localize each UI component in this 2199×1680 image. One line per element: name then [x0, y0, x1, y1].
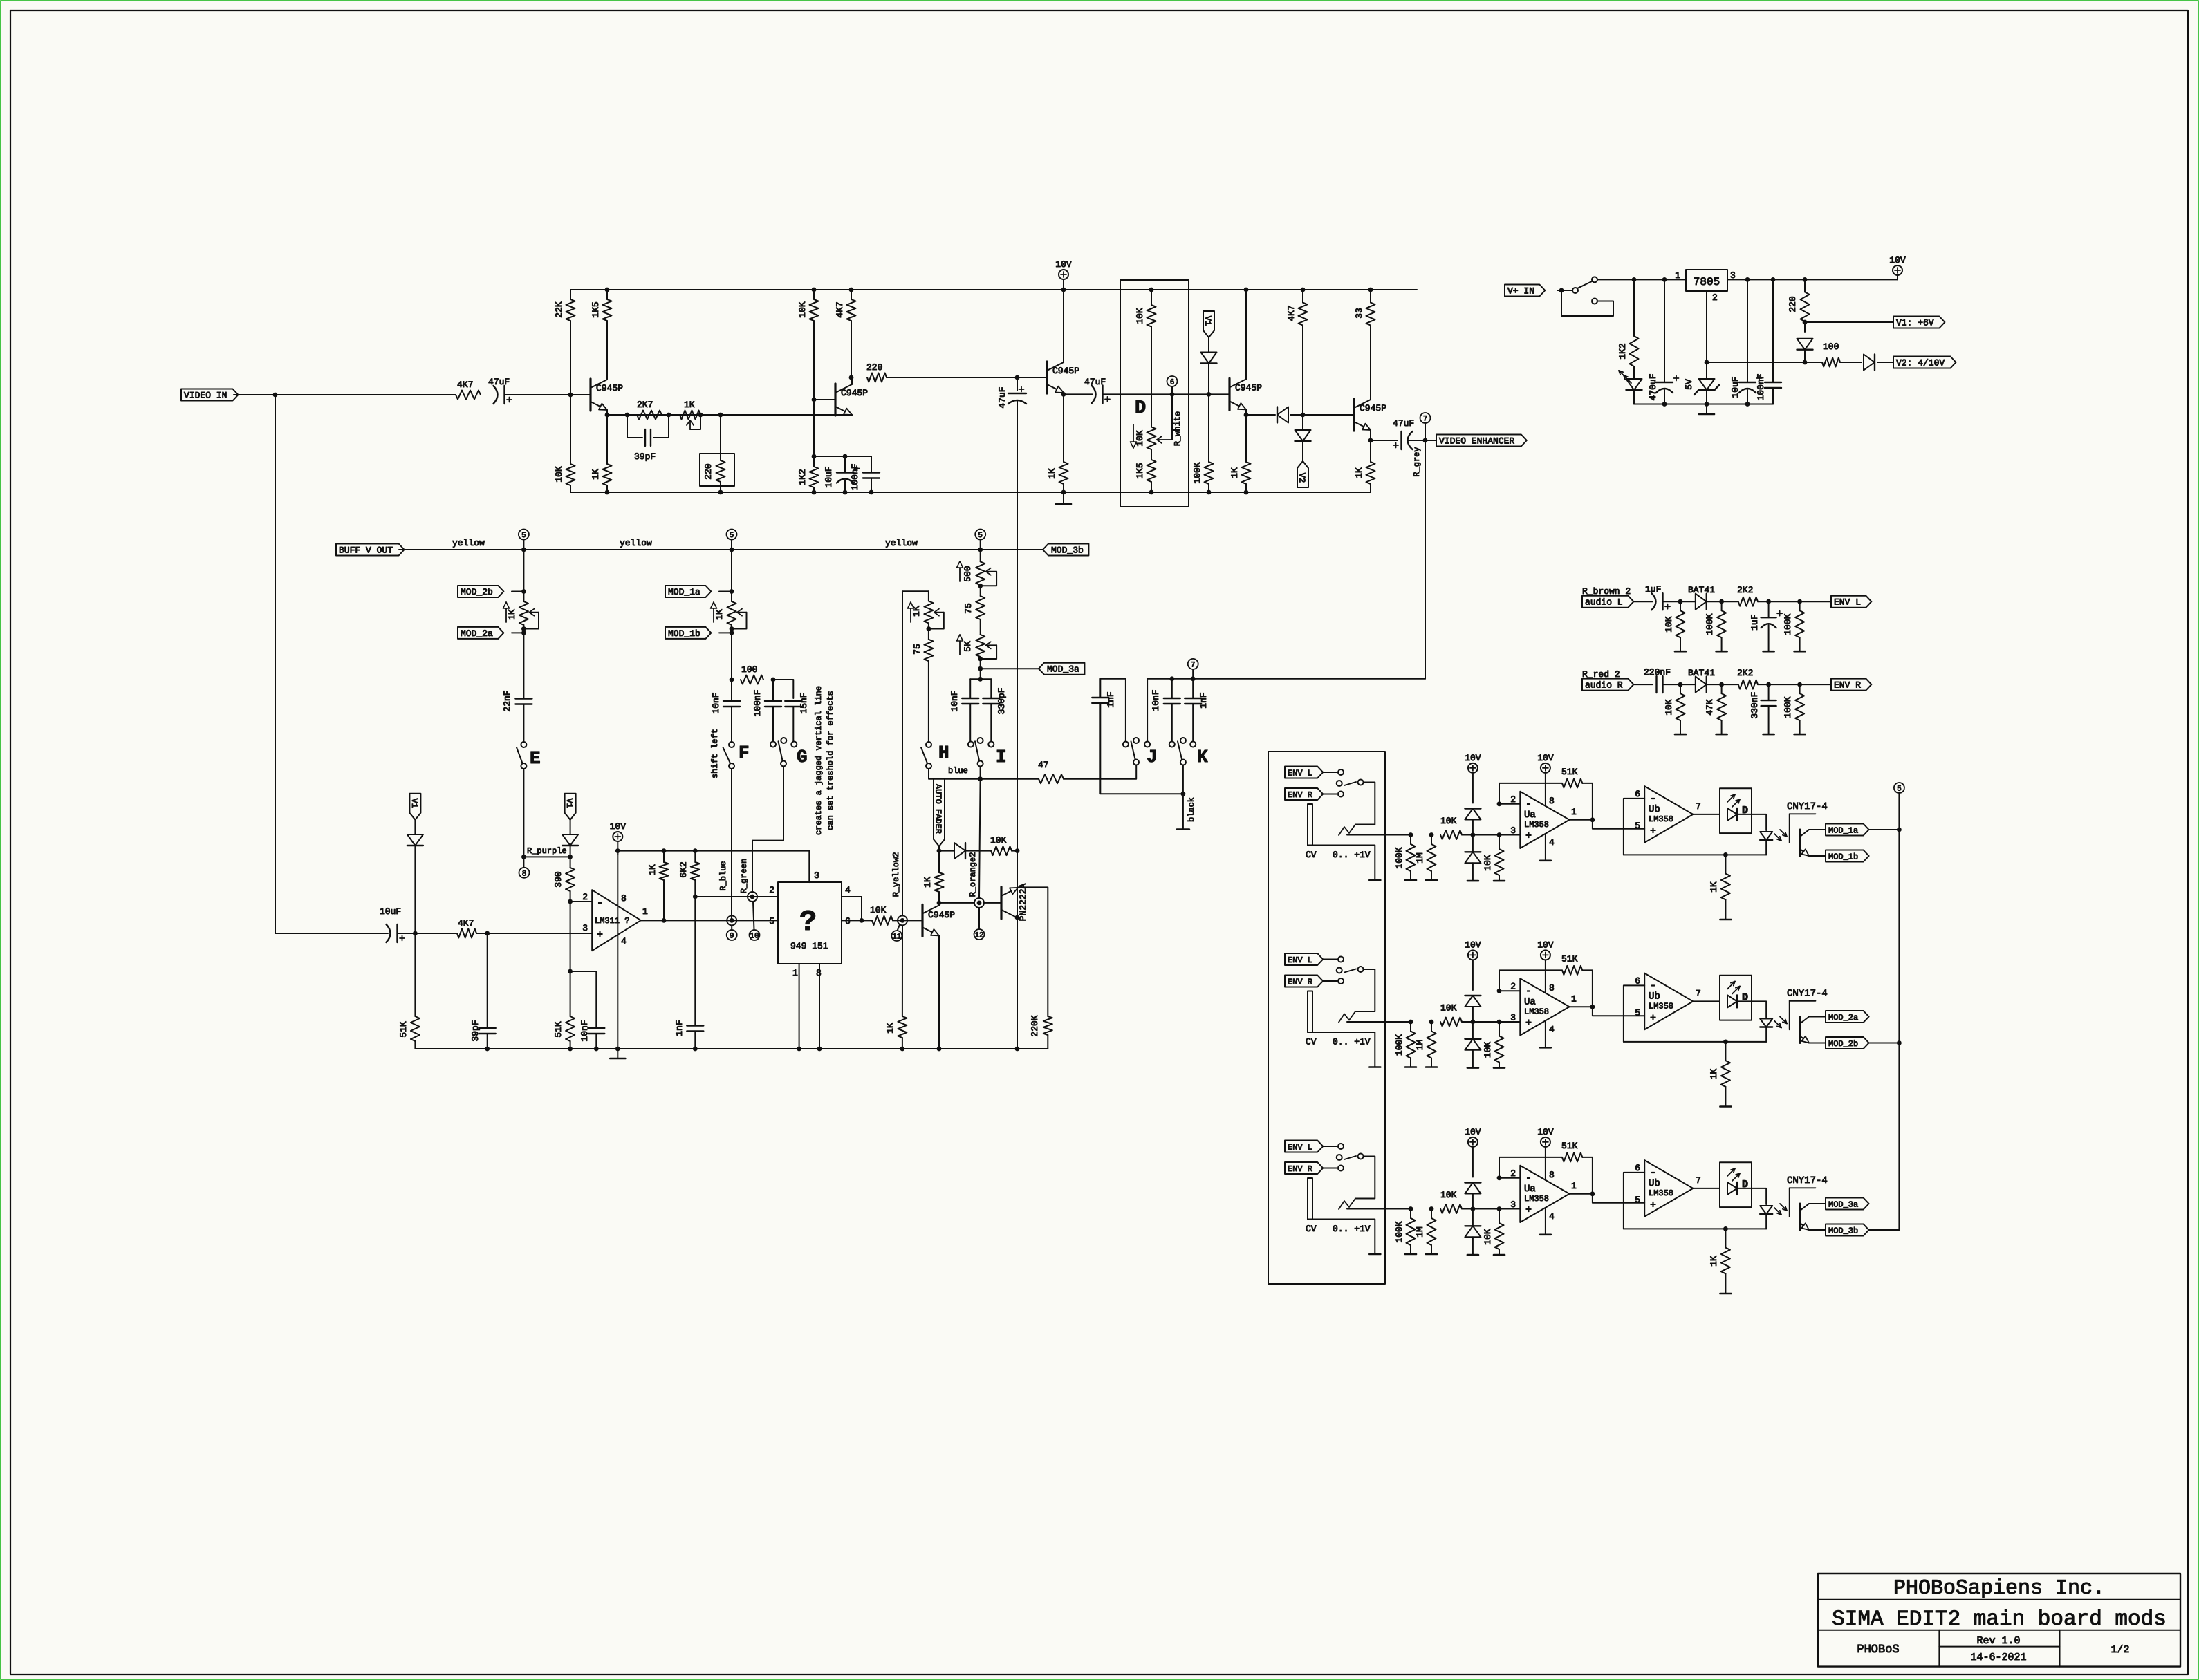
svg-text:0.. +1V: 0.. +1V	[1333, 1224, 1371, 1234]
wire feedback up and over	[1499, 970, 1562, 991]
wire Ub output to D box	[1693, 1188, 1720, 1189]
resistor 100K (env load)	[1795, 610, 1804, 637]
switch K right contact	[1190, 742, 1196, 747]
svg-text:+: +	[1650, 825, 1656, 837]
resistor 390	[566, 868, 575, 891]
switch H blade	[921, 747, 927, 763]
node 500 pot chain tap	[978, 548, 983, 552]
svg-text:10V: 10V	[1465, 940, 1481, 950]
capacitor 39pF (comparator)	[479, 1027, 496, 1029]
wire R_purple to 390	[523, 856, 570, 857]
svg-text:10V: 10V	[1537, 753, 1554, 763]
wire 47 to switch J	[1064, 765, 1136, 779]
wire MOD_3b to bus	[1869, 1229, 1900, 1231]
capacitor 100nF (supply)	[1765, 382, 1781, 383]
node MOD_1 pot bottom	[730, 626, 734, 631]
svg-text:MOD_2a: MOD_2a	[1828, 1013, 1858, 1023]
svg-text:5: 5	[1635, 1195, 1640, 1205]
wire switch E to R_purple	[523, 769, 524, 857]
svg-text:5: 5	[521, 532, 526, 540]
svg-text:1: 1	[1571, 1181, 1577, 1191]
node 1K pullup top	[662, 848, 667, 853]
wire BAT41 out	[1707, 601, 1738, 602]
terminal R_blue (circle)	[727, 915, 736, 925]
ground (10K pulldown)	[1494, 1254, 1505, 1256]
ground (video bottom bus)	[1063, 492, 1064, 504]
svg-text:MOD_2b: MOD_2b	[1828, 1039, 1858, 1049]
circled 5 (MOD_1 tap)	[731, 540, 732, 550]
wire Ub pin6 bracket	[1624, 985, 1644, 1042]
net flag audio R	[1582, 679, 1633, 691]
node MOD_2b junction	[521, 589, 526, 594]
svg-text:AUTO FADER: AUTO FADER	[934, 784, 943, 834]
node 10V bus	[1061, 288, 1066, 292]
switch F lower contact	[729, 763, 734, 769]
ground (env 100K)	[1794, 651, 1806, 653]
circled 5 (MOD bus)	[1894, 783, 1904, 793]
resistor 1K2	[810, 467, 819, 487]
node 1nF bottom rail	[693, 1047, 698, 1052]
svg-text:10K: 10K	[870, 905, 887, 915]
node R_purple	[521, 855, 526, 859]
trimpot 1K (MOD_2)	[519, 601, 528, 625]
resistor 100 (V2)	[1822, 358, 1840, 367]
svg-text:1nF: 1nF	[674, 1020, 685, 1036]
node 1K bottom bus	[1244, 490, 1249, 495]
node 100nF bottom bus	[869, 490, 874, 495]
svg-text:47uF: 47uF	[997, 386, 1008, 408]
resistor 4K7 (comparator input)	[457, 929, 476, 938]
resistor 1K (Q1 emitter)	[603, 464, 612, 485]
svg-text:-: -	[1525, 986, 1532, 998]
svg-text:1K: 1K	[922, 877, 933, 888]
capacitor 47uF (video in coupling)	[494, 386, 498, 404]
opamp Ub LM358	[1644, 1160, 1693, 1217]
resistor 10K (chip output)	[872, 916, 893, 925]
contact circle ENV L	[1338, 957, 1344, 962]
box D (opto LED)	[1720, 788, 1752, 833]
svg-text:2K2: 2K2	[1737, 585, 1753, 595]
node 47uF vertical tap	[1015, 375, 1020, 380]
node 10V rail (LM311)	[615, 848, 620, 853]
resistor 1K (Q4 emitter)	[1242, 462, 1251, 484]
svg-text:6: 6	[845, 916, 851, 926]
node 10K tap	[1678, 682, 1683, 687]
node 4K7 top bus	[1301, 288, 1306, 292]
diode V2 out	[1864, 355, 1875, 371]
svg-text:6: 6	[1170, 379, 1175, 387]
svg-text:2: 2	[582, 892, 588, 902]
ground (cv 1M)	[1426, 1066, 1437, 1068]
resistor 100K (V1 bias)	[1205, 462, 1214, 484]
wire 47uF to Q1 base	[505, 394, 591, 395]
svg-text:39pF: 39pF	[470, 1020, 481, 1041]
node 47K tap	[1719, 682, 1724, 687]
box envelope input section	[1268, 752, 1385, 1284]
node Ua output	[1590, 817, 1595, 822]
node 470uF top	[1662, 277, 1667, 282]
wire V+ IN	[1557, 290, 1572, 291]
svg-text:220K: 220K	[1030, 1015, 1040, 1036]
svg-text:1uF: 1uF	[1645, 584, 1661, 595]
svg-text:330pF: 330pF	[996, 687, 1007, 714]
svg-text:ENV R: ENV R	[1834, 680, 1861, 691]
resistor 100 (shift filter)	[741, 675, 763, 684]
svg-text:7: 7	[1191, 661, 1196, 669]
node 1K2 bottom bus	[812, 490, 817, 495]
svg-text:1K: 1K	[647, 864, 658, 875]
svg-text:E: E	[530, 748, 541, 769]
diode clamp upper	[1465, 996, 1481, 1007]
resistor 10K (+in pulldown)	[1495, 1223, 1504, 1249]
svg-text:1K: 1K	[684, 400, 695, 410]
node pin2 feedback	[1497, 989, 1502, 993]
node 10nF tap (R_grey line)	[1169, 676, 1174, 681]
svg-text:75: 75	[912, 644, 922, 655]
node R_white wiper on signal	[1170, 392, 1175, 397]
svg-text:R_green: R_green	[739, 859, 749, 893]
resistor 1M (cv in)	[1427, 1218, 1436, 1245]
net flag MOD_2a	[1826, 1011, 1869, 1023]
node 10uF bottom	[1745, 402, 1750, 407]
switch I right contact	[988, 742, 994, 747]
svg-text:3: 3	[814, 870, 819, 881]
node 10K tap	[1678, 599, 1683, 604]
svg-text:10V: 10V	[610, 821, 627, 832]
wire env select output	[1355, 969, 1375, 1011]
box D (opto LED)	[1720, 976, 1752, 1020]
svg-text:C945P: C945P	[1360, 403, 1386, 413]
svg-text:500: 500	[963, 566, 973, 581]
wire R_orange2 to PN2222A base	[984, 902, 1001, 904]
svg-text:C945P: C945P	[928, 910, 955, 920]
wire LM311 output to chip pin5	[641, 920, 778, 921]
node 2K7 left	[625, 413, 630, 418]
switch H lower contact	[926, 763, 931, 769]
svg-text:7: 7	[1696, 801, 1701, 812]
node 10nF branch	[568, 969, 573, 974]
svg-text:100K: 100K	[1394, 1034, 1404, 1056]
wire Q2 emitter to stage1 output	[851, 414, 853, 416]
capacitor 1uF (env hold)	[1761, 617, 1776, 618]
capacitor 220nF (env in)	[1655, 676, 1657, 693]
svg-text:4K7: 4K7	[1286, 305, 1297, 321]
regulator 7805	[1686, 270, 1727, 291]
svg-text:MOD_3a: MOD_3a	[1828, 1200, 1858, 1210]
ground (cv 1M)	[1426, 1253, 1437, 1256]
switch power blade	[1577, 281, 1592, 288]
wire D box out	[1737, 1188, 1766, 1204]
svg-text:BAT41: BAT41	[1688, 585, 1715, 595]
wire Ua pin2	[1499, 1177, 1520, 1179]
svg-text:1: 1	[792, 968, 798, 978]
svg-text:2: 2	[1510, 1168, 1516, 1179]
svg-text:Ub: Ub	[1649, 804, 1660, 815]
svg-text:10K: 10K	[1483, 855, 1493, 871]
resistor 10K (cv series)	[1440, 1018, 1462, 1027]
svg-text:10V: 10V	[1889, 255, 1906, 265]
svg-text:220nF: 220nF	[1644, 667, 1671, 678]
svg-text:47: 47	[1038, 760, 1049, 770]
switch I blade	[975, 741, 979, 760]
switch power top contact	[1592, 277, 1597, 282]
svg-text:10K: 10K	[1440, 1190, 1457, 1200]
svg-text:10V: 10V	[1055, 259, 1072, 270]
svg-text:10K: 10K	[797, 301, 808, 318]
resistor 100K (env)	[1717, 610, 1726, 637]
net flag ENV L (group)	[1285, 767, 1323, 778]
wire Q6 collector to R_orange2	[939, 902, 974, 904]
node junction video input	[273, 393, 278, 398]
wire ENV L to contact	[1323, 1146, 1337, 1147]
switch J middle contact	[1133, 738, 1139, 743]
wire Ua pin2	[1499, 990, 1520, 991]
node black junction	[1181, 792, 1186, 796]
jack CV body	[1308, 1178, 1312, 1220]
svg-text:8: 8	[1549, 1170, 1555, 1180]
svg-text:ENV L: ENV L	[1288, 955, 1312, 965]
wire MOD_1 chain down	[731, 633, 732, 680]
wire switch I pivot to blue	[980, 767, 981, 779]
resistor 100K (env load)	[1795, 693, 1804, 720]
resistor 10K (env)	[1676, 693, 1685, 720]
svg-text:100: 100	[741, 664, 757, 675]
wire VIDEO IN to 4K7	[234, 394, 456, 395]
svg-text:2: 2	[1510, 982, 1516, 992]
trimpot 1K MOD_2 wiper loop	[529, 612, 539, 613]
resistor 220K	[1043, 1016, 1052, 1035]
wire jack tip output	[1347, 1208, 1411, 1210]
node 47uF line at PN2222A collector	[1015, 915, 1020, 920]
svg-text:10V: 10V	[1465, 753, 1481, 763]
power symbol 10V (video driver)	[1059, 270, 1068, 279]
wire comparator bottom rail	[415, 1048, 1017, 1049]
optocoupler CNY17-4 outline	[1790, 1000, 1816, 1002]
resistor 33	[1366, 303, 1375, 326]
svg-text:F: F	[739, 743, 750, 763]
svg-text:CNY17-4: CNY17-4	[1787, 989, 1828, 1000]
wire V1 to diode	[1208, 337, 1209, 352]
svg-text:2K2: 2K2	[1737, 668, 1753, 678]
svg-text:14-6-2021: 14-6-2021	[1970, 1652, 2026, 1663]
svg-text:7805: 7805	[1694, 276, 1720, 288]
node env 100K tap	[1797, 599, 1802, 604]
svg-text:1K: 1K	[591, 469, 601, 480]
node Q6 collector	[937, 901, 942, 906]
svg-text:-: -	[1650, 793, 1656, 805]
switch power lower contact	[1592, 299, 1597, 304]
svg-text:creates a jagged vertical line: creates a jagged vertical line	[814, 686, 824, 835]
svg-text:10K: 10K	[1440, 816, 1457, 826]
resistor 51K (input bias)	[411, 1016, 420, 1041]
ground (comparator rail)	[617, 1049, 618, 1058]
svg-text:47uF: 47uF	[1084, 377, 1106, 387]
wire chip pin4 loop	[842, 897, 862, 920]
svg-text:10uF: 10uF	[824, 466, 834, 487]
svg-text:yellow: yellow	[452, 538, 485, 548]
resistor 75 (H chain)	[924, 640, 933, 661]
node 10K pulldown tap	[1497, 832, 1502, 837]
circled 7 marker	[1425, 423, 1426, 440]
diode clamp lower	[1472, 835, 1474, 852]
diode clamp lower	[1472, 1022, 1474, 1039]
jack CV body	[1308, 804, 1312, 846]
wire CNY LED to feedback rail	[1765, 1214, 1767, 1229]
wire opto collector to MOD_1a	[1809, 829, 1826, 830]
wire supply bottom rail	[1634, 404, 1773, 405]
node Q4 collector bus	[1244, 288, 1249, 292]
circled 11	[898, 925, 900, 931]
capacitor 10nF (H/I)	[962, 698, 978, 699]
resistor 10K (cv series)	[1440, 1204, 1462, 1213]
terminal R_green (circle)	[748, 892, 757, 902]
node 220 bottom bus	[718, 490, 723, 495]
node 10uF bottom bus	[843, 490, 848, 495]
svg-text:4: 4	[1549, 1211, 1555, 1222]
resistor 2K2 (env)	[1738, 680, 1758, 689]
svg-text:10K: 10K	[1483, 1042, 1493, 1058]
svg-text:390: 390	[553, 871, 564, 887]
wire lower contact loop	[1561, 290, 1613, 316]
svg-text:4: 4	[1549, 837, 1555, 848]
net flag MOD_1b	[1826, 850, 1869, 862]
svg-text:330nF: 330nF	[1750, 692, 1760, 719]
svg-text:100: 100	[1823, 342, 1839, 352]
capacitor 100nF (stage2 bypass)	[863, 472, 880, 473]
svg-text:10K: 10K	[1440, 1003, 1457, 1014]
node 33 top bus	[1368, 288, 1373, 292]
wire BAT41 out	[1707, 684, 1738, 685]
svg-text:47uF: 47uF	[488, 377, 510, 387]
svg-text:G: G	[797, 747, 808, 767]
ground (Ua pin4)	[1540, 860, 1551, 862]
circled 5 (MOD_2 tap)	[523, 540, 524, 550]
wire diode to input node	[414, 846, 416, 933]
switch I middle contact	[978, 738, 983, 743]
svg-text:MOD_2a: MOD_2a	[461, 628, 493, 639]
wire LM311 pins 8/4 vertical	[617, 851, 618, 1049]
switch env select blade	[1344, 782, 1356, 785]
opamp Ub LM358	[1644, 786, 1693, 843]
svg-text:1: 1	[1571, 807, 1577, 817]
svg-text:100K: 100K	[1394, 847, 1404, 868]
node 220 top	[1803, 277, 1808, 282]
LED power indicator	[1633, 366, 1635, 379]
svg-text:C945P: C945P	[1235, 382, 1262, 393]
transistor Q6 C945P (comparator buffer)	[921, 904, 923, 936]
net flag ENV R	[1831, 679, 1871, 691]
net flag MOD_3b	[1043, 544, 1088, 556]
diode clamp upper	[1465, 809, 1481, 820]
capacitor 47uF (signal coupling)	[1092, 385, 1096, 403]
svg-text:4: 4	[621, 936, 627, 946]
wire pin2 down to 51K	[570, 902, 571, 1016]
resistor 1M (cv in)	[1427, 844, 1436, 871]
svg-text:K: K	[1197, 747, 1208, 767]
svg-text:ENV L: ENV L	[1288, 769, 1312, 778]
trimpot 5K	[976, 635, 985, 657]
wire V1 to diode (left)	[414, 820, 416, 834]
node 51K bottom rail	[568, 1047, 573, 1052]
net flag BUFF V OUT	[336, 544, 405, 556]
node 100K bottom bus	[1207, 490, 1212, 495]
power symbol 10V (LM311)	[613, 832, 622, 841]
capacitor 1nF (chip pin2)	[687, 1025, 703, 1026]
node LM311 output	[662, 918, 667, 923]
wire Ua output	[1570, 1006, 1593, 1007]
wire pot chain corner	[902, 590, 929, 592]
net flag MOD_1a	[665, 586, 711, 597]
svg-text:+: +	[1650, 1200, 1656, 1211]
wire Q7 emitter up	[1017, 886, 1019, 888]
net flag ENV R (group)	[1285, 788, 1323, 800]
svg-text:ENV R: ENV R	[1288, 790, 1312, 800]
node Q1 base divider	[568, 393, 573, 398]
svg-text:15nF: 15nF	[799, 692, 809, 713]
wire 7805 pin2 down	[1706, 291, 1707, 379]
optocoupler CNY17-4 outline	[1790, 813, 1816, 814]
svg-text:6: 6	[1635, 1163, 1640, 1173]
svg-text:I: I	[996, 747, 1007, 767]
svg-text:3: 3	[1510, 1200, 1516, 1210]
resistor 10K (cv series)	[1440, 830, 1462, 839]
svg-text:CNY17-4: CNY17-4	[1787, 801, 1828, 812]
node Q4 emitter	[1244, 413, 1249, 418]
svg-text:Rev 1.0: Rev 1.0	[1976, 1635, 2020, 1647]
trimpot 1K (video gain)	[680, 411, 700, 420]
diode clamp upper	[1465, 1183, 1481, 1194]
diode BAT41	[1696, 677, 1707, 693]
svg-text:4: 4	[845, 885, 851, 895]
node Q2 base	[812, 398, 817, 402]
wire jack tip output	[1347, 834, 1411, 836]
switch K pivot	[1180, 760, 1186, 765]
comparator U1 LM311	[592, 890, 641, 951]
svg-text:10uF: 10uF	[380, 906, 401, 917]
ground (Ua pin4)	[1540, 1047, 1551, 1049]
node LM311 pin2	[568, 899, 573, 904]
svg-text:VIDEO IN: VIDEO IN	[184, 391, 227, 401]
circled 12	[978, 908, 980, 929]
jack tip spring	[1339, 1199, 1355, 1210]
bus MOD return vertical	[1898, 793, 1900, 1231]
wire 500 chain from yellow bus	[980, 550, 981, 561]
svg-text:MOD_3a: MOD_3a	[1047, 664, 1079, 675]
svg-text:5: 5	[730, 532, 734, 540]
ground (env cap)	[1763, 734, 1774, 736]
net flag MOD_2b	[1826, 1037, 1869, 1049]
wire 10K to 47uF line	[1012, 850, 1017, 852]
node 390 top	[568, 855, 573, 859]
wire to BAT41	[1680, 601, 1696, 602]
svg-text:8: 8	[621, 893, 627, 904]
wire feedback up and over	[1499, 783, 1562, 804]
node 1K fb tap	[1723, 1226, 1728, 1231]
wire Ua out to Ub pin5	[1593, 820, 1644, 829]
svg-text:+: +	[597, 929, 603, 941]
svg-text:100nF: 100nF	[752, 689, 763, 716]
svg-text:5: 5	[978, 532, 983, 540]
switch env select contact	[1358, 967, 1364, 972]
contact circle ENV R	[1338, 978, 1344, 984]
ground (cv 1M)	[1426, 879, 1437, 881]
svg-text:10K: 10K	[1135, 430, 1145, 447]
wire chip pin2 link	[695, 896, 778, 897]
svg-text:MOD_3b: MOD_3b	[1051, 545, 1084, 556]
svg-text:2: 2	[1510, 794, 1516, 805]
power symbol 10V (supply out)	[1897, 275, 1898, 279]
svg-text:CNY17-4: CNY17-4	[1787, 1175, 1828, 1186]
